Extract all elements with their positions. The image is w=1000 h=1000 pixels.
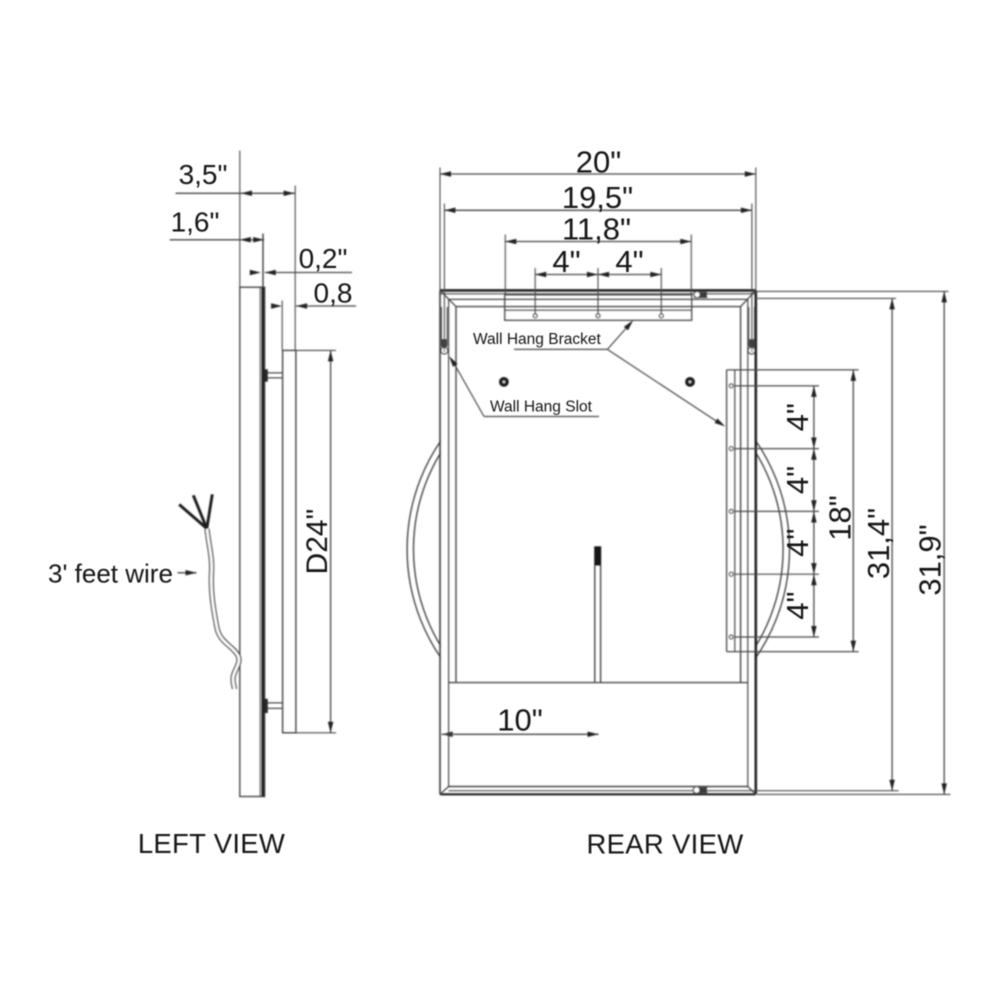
right rail hole 3 bbox=[729, 510, 733, 514]
svg-text:REAR VIEW: REAR VIEW bbox=[586, 829, 743, 860]
screw dot right bbox=[686, 378, 695, 387]
wire strand 3 bbox=[207, 494, 213, 528]
power cable right line bbox=[600, 566, 602, 683]
leader to wire bbox=[178, 572, 197, 574]
top rail hole 1 bbox=[533, 314, 537, 318]
wall hang bracket (top rail) bbox=[505, 295, 692, 321]
dimension line 19,5 bbox=[444, 209, 752, 211]
rear frame outer right edge (thick) bbox=[754, 290, 757, 794]
rear frame bottom line 2 + 31,4 ext bbox=[449, 790, 899, 792]
extension line panel top bbox=[296, 349, 336, 351]
standoff bracket upper bbox=[266, 372, 283, 374]
rear frame mid-left line bbox=[448, 299, 450, 786]
ext 4 mid bbox=[597, 268, 599, 314]
left view: mirror back dark edge bbox=[261, 287, 264, 796]
bottom frame slot hole bbox=[693, 787, 700, 794]
ext 20 left bbox=[439, 168, 441, 291]
extension line panel front bbox=[281, 301, 283, 351]
right rail hole extension line 5 bbox=[735, 636, 819, 638]
right rail inner line bbox=[734, 370, 736, 652]
svg-text:4": 4" bbox=[780, 466, 815, 494]
chamfer bottom-right bbox=[748, 787, 756, 795]
rear frame outer top edge (thick) bbox=[440, 289, 756, 292]
left wall hang slot hole bbox=[441, 347, 448, 354]
svg-text:11,8": 11,8" bbox=[562, 212, 631, 247]
wire strand 1 bbox=[179, 505, 207, 529]
svg-text:18": 18" bbox=[823, 495, 858, 541]
rear frame inner left line bbox=[455, 307, 457, 683]
right wall hang slot channel bbox=[748, 307, 750, 347]
right rail hole extension line 4 bbox=[735, 573, 819, 575]
right rail hole 1 bbox=[729, 384, 733, 388]
extension line panel bottom bbox=[296, 732, 336, 734]
dimension line 10 bbox=[442, 733, 454, 735]
right rail bottom edge + 18 ext bbox=[727, 651, 859, 653]
bottom compartment top edge bbox=[449, 682, 748, 684]
top rail hole 2 bbox=[596, 314, 600, 318]
dimension line 11,8 bbox=[505, 241, 691, 243]
extension line mirror front bbox=[239, 151, 241, 288]
svg-text:D24": D24" bbox=[301, 509, 334, 575]
right rail hole extension line 3 bbox=[735, 510, 819, 512]
leader tail slot label bbox=[484, 416, 599, 418]
svg-text:19,5": 19,5" bbox=[562, 180, 633, 215]
ext 4 left bbox=[534, 268, 536, 314]
svg-text:31,9": 31,9" bbox=[913, 524, 948, 595]
rear frame outer bottom edge bbox=[440, 793, 756, 795]
right rail hole 4 bbox=[729, 572, 733, 576]
svg-text:4": 4" bbox=[615, 244, 643, 279]
svg-text:4": 4" bbox=[780, 403, 815, 431]
svg-text:31,4": 31,4" bbox=[861, 508, 896, 579]
right rail hole extension line 1 bbox=[735, 385, 819, 387]
extension line panel rear bbox=[294, 186, 296, 351]
chamfer top-right bbox=[741, 290, 756, 306]
dimension line D24 bbox=[330, 350, 332, 732]
mirror circle D24 (rear, clipped arcs) bbox=[407, 358, 789, 740]
screw dot left bbox=[500, 378, 509, 387]
rear frame bottom inner line bbox=[449, 786, 748, 788]
dimension line 31,4 bbox=[891, 298, 893, 790]
svg-text:0,2": 0,2" bbox=[299, 243, 348, 274]
svg-text:1,6": 1,6" bbox=[171, 207, 220, 238]
rear frame inner right line bbox=[740, 307, 742, 683]
dimension line 20 bbox=[440, 173, 756, 175]
ext 11,8 right bbox=[690, 235, 692, 295]
leader to right bracket bbox=[607, 349, 719, 423]
dimension line 0,2 bbox=[243, 272, 261, 274]
ext 20 right bbox=[755, 168, 757, 291]
svg-text:3' feet wire: 3' feet wire bbox=[48, 559, 173, 589]
dimension line 1,6 bbox=[170, 239, 240, 241]
right rail hole 2 bbox=[729, 447, 733, 451]
dimension line 0,8 bbox=[266, 305, 283, 307]
standoff bracket lower bbox=[266, 702, 283, 704]
wall hang bracket (right rail) left edge bbox=[726, 370, 728, 652]
ext 19,5 right bbox=[751, 204, 753, 353]
left view: mirror glass profile bbox=[240, 287, 265, 796]
top frame slot channel bbox=[694, 291, 708, 293]
right wall hang slot hole bbox=[748, 347, 755, 354]
svg-text:Wall Hang Bracket: Wall Hang Bracket bbox=[473, 331, 601, 348]
extension line mirror back bbox=[262, 234, 264, 288]
dimension line 3,5 bbox=[176, 192, 296, 194]
svg-text:3,5": 3,5" bbox=[179, 159, 228, 190]
dimension line 18 bbox=[852, 370, 854, 652]
dimension line 4+4 bbox=[535, 274, 661, 276]
chamfer top-left bbox=[440, 290, 456, 306]
rear frame outer left edge bbox=[439, 290, 441, 794]
dimension line 4-chain right bbox=[813, 386, 815, 637]
svg-text:4": 4" bbox=[780, 529, 815, 557]
svg-text:4": 4" bbox=[552, 244, 580, 279]
svg-text:0,8: 0,8 bbox=[314, 278, 353, 309]
ext 11,8 left bbox=[504, 235, 506, 295]
power wire (3 feet) bbox=[207, 529, 239, 689]
wire strand 2 bbox=[193, 495, 207, 528]
svg-text:Wall Hang Slot: Wall Hang Slot bbox=[490, 399, 593, 416]
leader to left slot bbox=[454, 363, 485, 417]
top rail hole 3 bbox=[659, 314, 663, 318]
ext 31,9 bottom bbox=[757, 793, 951, 795]
rear frame inner top line bbox=[456, 306, 741, 308]
svg-text:10": 10" bbox=[497, 703, 543, 738]
svg-text:4": 4" bbox=[780, 591, 815, 619]
top rail inner line bbox=[505, 309, 692, 311]
ext 4 right bbox=[660, 268, 662, 314]
leader to top bracket bbox=[607, 326, 628, 350]
right rail top edge + 18 ext bbox=[727, 369, 859, 371]
ext 31,9 top bbox=[756, 290, 949, 292]
chamfer bottom-left bbox=[440, 787, 449, 795]
rear frame top line 2 bbox=[440, 293, 756, 295]
svg-text:20": 20" bbox=[576, 144, 622, 179]
right rail hole extension line 2 bbox=[735, 448, 819, 450]
leader tail bracket label bbox=[514, 348, 607, 350]
svg-text:LEFT VIEW: LEFT VIEW bbox=[138, 828, 285, 859]
left wall hang slot channel bbox=[440, 307, 442, 347]
bottom frame slot channel bbox=[693, 786, 707, 788]
left view: back panel (D24 plate) profile bbox=[283, 350, 296, 732]
rear frame top line 3 bbox=[449, 298, 748, 300]
top frame slot hole bbox=[694, 292, 700, 298]
dimension line 31,9 bbox=[943, 291, 945, 794]
rear frame mid-right line bbox=[747, 299, 749, 786]
ext 31,4 top bbox=[756, 297, 896, 299]
right rail hole 5 bbox=[729, 635, 733, 639]
power cable connector tip bbox=[594, 546, 601, 565]
power cable left line bbox=[594, 566, 596, 683]
ext 19,5 left bbox=[443, 204, 445, 353]
